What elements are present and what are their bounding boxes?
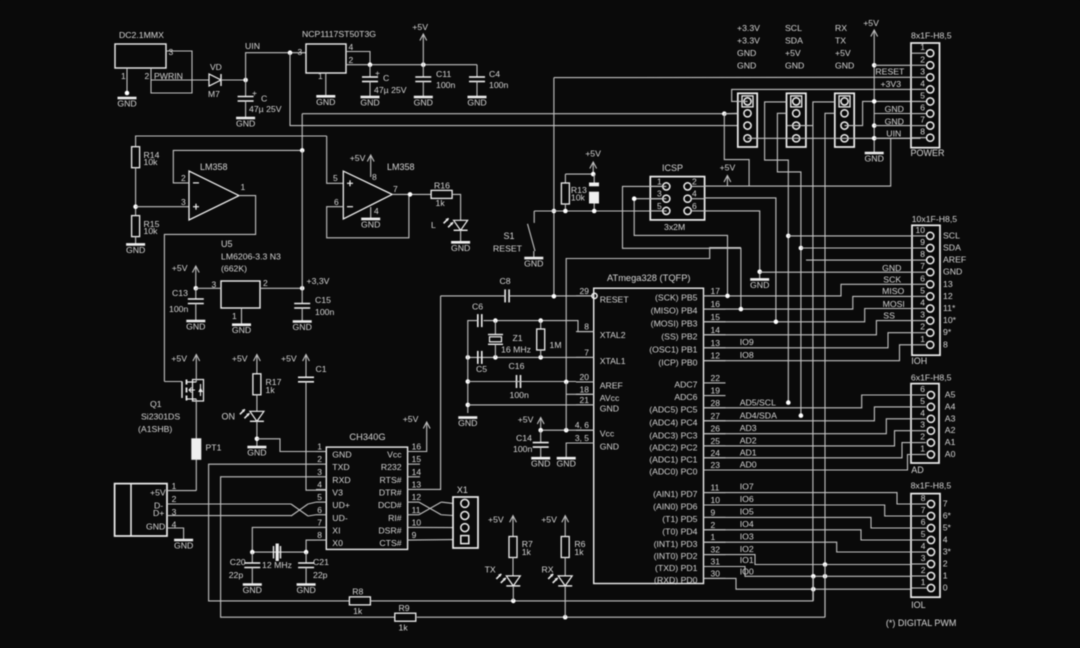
ground GND at input cap <box>236 118 255 129</box>
svg-text:XTAL1: XTAL1 <box>600 356 626 366</box>
capacitor C15 100n <box>294 304 310 309</box>
svg-text:GND: GND <box>943 267 962 277</box>
svg-text:1: 1 <box>232 311 237 321</box>
svg-text:4: 4 <box>349 42 354 52</box>
svg-text:XTAL2: XTAL2 <box>600 330 626 340</box>
svg-text:1: 1 <box>920 444 925 454</box>
wire R6 to RX LED <box>564 558 566 576</box>
wire USB pin4 GND <box>167 528 184 540</box>
svg-text:100n: 100n <box>436 80 455 90</box>
svg-text:7: 7 <box>393 184 398 194</box>
svg-text:DSR#: DSR# <box>378 525 401 535</box>
wire R17 to ON LED <box>256 395 258 412</box>
power +5V at op-amp2 pin8 <box>350 153 374 177</box>
svg-text:XI: XI <box>332 525 340 535</box>
wire rail to op-amp2 +input <box>327 136 344 183</box>
svg-text:Z1: Z1 <box>513 333 523 343</box>
svg-text:SDA: SDA <box>943 243 961 253</box>
junction pin8 <box>872 136 877 141</box>
svg-text:GND: GND <box>750 280 769 290</box>
IOL pin 7 (6*) <box>927 512 934 519</box>
resistor R14 10k <box>132 147 140 168</box>
header J1 4-pin <box>738 93 757 147</box>
svg-text:+5V: +5V <box>863 18 879 28</box>
svg-text:2: 2 <box>181 173 186 183</box>
svg-text:15: 15 <box>711 312 721 322</box>
ground GND at C11 <box>414 97 433 108</box>
svg-text:3: 3 <box>921 553 926 563</box>
junction reg out / C <box>368 62 373 67</box>
svg-text:4: 4 <box>920 298 925 308</box>
wire UIN rail B across top <box>290 53 738 126</box>
svg-text:L: L <box>431 220 436 230</box>
junction +5V arrow / C11 <box>421 62 426 67</box>
svg-text:LM358: LM358 <box>200 162 228 172</box>
svg-text:AVcc: AVcc <box>600 393 620 403</box>
header J1 4-pin pin 2 <box>744 110 751 117</box>
svg-text:11*: 11* <box>943 303 956 313</box>
junction ON LED ground node <box>255 437 260 442</box>
svg-text:SDA: SDA <box>785 36 803 46</box>
power +5V at R6 <box>541 515 568 537</box>
svg-text:+5V: +5V <box>720 163 736 173</box>
svg-text:21: 21 <box>580 395 590 405</box>
junction IO0 riser <box>811 587 816 592</box>
svg-text:2: 2 <box>943 559 948 569</box>
ground GND at C20 <box>243 585 262 596</box>
svg-text:SCL: SCL <box>785 23 802 33</box>
header J3 4-pin pin 1 <box>841 98 848 105</box>
X1 pin 1 <box>461 499 469 507</box>
svg-text:7: 7 <box>920 115 925 125</box>
svg-text:AD3: AD3 <box>740 423 757 433</box>
svg-text:100n: 100n <box>315 307 334 317</box>
svg-text:15: 15 <box>412 454 422 464</box>
wire X0 to crystal <box>306 540 316 552</box>
svg-text:5: 5 <box>921 529 926 539</box>
header J3 4-pin pin 4 <box>841 135 848 142</box>
wire ICSP pin4 MOSI route <box>705 198 776 321</box>
svg-text:10k: 10k <box>144 226 159 236</box>
svg-text:CH340G: CH340G <box>349 432 385 442</box>
junction UIN-rail <box>288 50 293 55</box>
svg-text:IO4: IO4 <box>740 519 754 529</box>
svg-text:1k: 1k <box>574 547 584 557</box>
svg-text:6*: 6* <box>943 511 952 521</box>
svg-text:IO0: IO0 <box>740 567 754 577</box>
svg-text:AREF: AREF <box>943 255 966 265</box>
wire diode to UIN node <box>221 79 246 81</box>
wire C8 left to DTR column <box>441 295 506 297</box>
svg-text:DC2.1MMX: DC2.1MMX <box>119 30 164 40</box>
svg-text:2: 2 <box>692 176 697 186</box>
POWER pin 8 <box>927 134 934 141</box>
svg-text:X0: X0 <box>332 538 343 548</box>
svg-text:13: 13 <box>711 338 721 348</box>
AD pin 5 (A4) <box>927 403 934 410</box>
crystal Q 12 MHz <box>274 544 281 562</box>
junction MOSI/ICSP <box>774 320 779 325</box>
AD pin 3 (A2) <box>927 427 934 434</box>
svg-text:(ADC1) PC1: (ADC1) PC1 <box>649 454 697 464</box>
svg-text:2: 2 <box>920 432 925 442</box>
IOL pin 2 (1) <box>927 572 934 579</box>
svg-text:IO2: IO2 <box>740 544 754 554</box>
wire POWER pin3 RESET <box>554 76 911 78</box>
svg-text:1: 1 <box>711 532 716 542</box>
svg-text:UIN: UIN <box>886 129 901 139</box>
junction gnd column pin21 row <box>466 403 471 408</box>
IOH pin 8 (AREF) <box>927 257 934 264</box>
svg-text:UIN: UIN <box>245 41 260 51</box>
svg-text:+5V: +5V <box>585 149 601 159</box>
junction MISO/ICSP <box>739 307 744 312</box>
svg-text:UD-: UD- <box>332 513 348 523</box>
svg-text:1k: 1k <box>353 606 363 616</box>
IOH pin 4 (11*) <box>927 305 934 312</box>
junction +5V/pin2 <box>872 63 877 68</box>
svg-text:1k: 1k <box>522 547 532 557</box>
junction U5 input / C13 <box>194 286 199 291</box>
AD pin 4 (A3) <box>927 415 934 422</box>
resistor R6 1k <box>561 537 569 558</box>
svg-text:AD: AD <box>911 465 924 475</box>
wire header3 pin2 TX drop <box>825 113 835 617</box>
svg-text:2: 2 <box>920 54 925 64</box>
svg-text:+5V: +5V <box>541 515 557 525</box>
IOH pin 6 (13) <box>927 281 934 288</box>
svg-text:11: 11 <box>711 483 720 493</box>
wire XTAL1 row <box>468 356 594 358</box>
svg-text:+5V: +5V <box>403 414 419 424</box>
junction 1M bottom <box>538 355 543 360</box>
wire ICSP pin1 MISO route <box>623 186 741 309</box>
svg-text:14: 14 <box>412 467 422 477</box>
svg-text:GND: GND <box>785 61 804 71</box>
wire RESET vertical net <box>553 78 555 297</box>
junction crystal left <box>250 550 255 555</box>
svg-text:2: 2 <box>317 454 322 464</box>
svg-text:GND: GND <box>360 98 379 108</box>
svg-text:Q1: Q1 <box>150 399 162 409</box>
POWER pin 7 <box>927 122 934 129</box>
svg-text:1: 1 <box>943 571 948 581</box>
svg-text:+5V: +5V <box>172 263 188 273</box>
wire CH340 Vcc to +5V <box>408 429 427 452</box>
svg-text:A0: A0 <box>945 449 956 459</box>
op-amp U1B LM358 <box>343 171 392 219</box>
power +5V at R17 <box>232 354 260 374</box>
svg-text:C15: C15 <box>315 295 331 305</box>
wire PT1 to USB +5V <box>195 459 197 490</box>
svg-text:(ADC5) PC5: (ADC5) PC5 <box>649 404 697 414</box>
svg-text:IO6: IO6 <box>740 494 754 504</box>
svg-text:IO5: IO5 <box>740 507 754 517</box>
POWER pin 5 <box>927 98 934 105</box>
svg-text:5: 5 <box>920 285 925 295</box>
svg-text:100n: 100n <box>510 390 529 400</box>
svg-text:7: 7 <box>584 347 589 357</box>
svg-text:12 MHz: 12 MHz <box>262 560 292 570</box>
wire op-amp2 output to R16 <box>392 193 431 195</box>
junction pin7 <box>872 123 877 128</box>
connector USB mini <box>115 484 167 536</box>
svg-text:C: C <box>261 94 267 104</box>
svg-text:19: 19 <box>711 386 721 396</box>
svg-text:22p: 22p <box>313 570 328 580</box>
svg-text:3: 3 <box>181 197 186 207</box>
svg-text:6: 6 <box>317 505 322 515</box>
junction IO2/RX riser <box>823 562 828 567</box>
IOL pin 8 (7) <box>927 500 934 507</box>
svg-text:1: 1 <box>921 577 926 587</box>
X1 pin 4 <box>461 536 469 544</box>
junction IO1/TX riser <box>811 574 816 579</box>
wire DCD#/RI# crossover to X1 <box>408 501 419 503</box>
junction R13 bottom <box>563 209 568 214</box>
power +5V at R13/diode <box>585 149 601 175</box>
power +5V at ICSP pin2 <box>720 163 736 187</box>
svg-text:DTR#: DTR# <box>379 487 402 497</box>
wire header3 pin3 +5V hook to POWER pin5 <box>845 101 921 125</box>
IOL pin 3 (2) <box>927 560 934 567</box>
svg-text:VD: VD <box>210 62 222 72</box>
junction SDA at IOH row <box>799 246 804 251</box>
resistor R15 10k <box>132 216 140 237</box>
AD pin 1 (A0) <box>927 451 934 458</box>
svg-text:GND: GND <box>467 98 486 108</box>
svg-text:GND: GND <box>186 322 205 332</box>
svg-text:27: 27 <box>711 411 721 421</box>
svg-text:(ADC2) PC2: (ADC2) PC2 <box>649 443 697 453</box>
svg-text:RESET: RESET <box>600 294 630 304</box>
header J2 4-pin pin 4 <box>793 135 800 142</box>
svg-text:GND: GND <box>524 259 543 269</box>
svg-text:(OSC1) PB1: (OSC1) PB1 <box>649 344 697 354</box>
svg-text:11: 11 <box>412 505 421 515</box>
svg-text:A2: A2 <box>945 425 956 435</box>
svg-text:UD+: UD+ <box>332 500 350 510</box>
svg-text:MOSI: MOSI <box>883 299 905 309</box>
svg-text:ON: ON <box>222 412 236 422</box>
op-amp U1A LM358 <box>189 171 239 220</box>
svg-text:1k: 1k <box>436 198 446 208</box>
junction feedback/3V3 column <box>300 148 305 153</box>
junction +5V/pin5 <box>872 99 877 104</box>
ground GND at ICSP <box>750 279 769 290</box>
junction SDA at AD4 row <box>799 413 804 418</box>
svg-text:PT1: PT1 <box>206 443 222 453</box>
svg-text:3: 3 <box>657 189 662 199</box>
svg-text:LM358: LM358 <box>387 162 415 172</box>
junction Vcc/+5V column <box>564 428 569 433</box>
wire Q1 drain to PT1 <box>195 399 197 439</box>
wire USB data crossover <box>291 504 308 516</box>
header J1 4-pin pin 1 <box>744 98 751 105</box>
svg-text:C20: C20 <box>230 557 246 567</box>
svg-text:GND: GND <box>236 119 255 129</box>
svg-text:+5V: +5V <box>281 354 297 364</box>
svg-text:GND: GND <box>885 104 904 114</box>
ground GND at C13 <box>186 321 205 332</box>
header J3 4-pin pin 2 <box>841 110 848 117</box>
svg-text:RESET: RESET <box>493 244 523 254</box>
svg-text:2: 2 <box>172 494 177 504</box>
wire R7 to TX LED <box>512 558 514 576</box>
IOH pin 3 (10*) <box>927 317 934 324</box>
capacitor C1 <box>298 377 314 382</box>
svg-text:0: 0 <box>943 583 948 593</box>
wire header3 pin4 tied on GND row <box>854 137 874 139</box>
resistor R16 1k <box>431 190 452 198</box>
svg-text:GND: GND <box>865 154 884 164</box>
junction R14/R15/op-amp <box>133 204 138 209</box>
resistor R13 10k <box>564 174 566 183</box>
wire AVcc feed <box>566 393 594 395</box>
svg-text:12: 12 <box>412 492 422 502</box>
svg-text:7: 7 <box>921 505 926 515</box>
svg-text:SCK: SCK <box>883 275 901 285</box>
svg-text:C4: C4 <box>489 69 500 79</box>
ground GND at U5 <box>232 325 251 336</box>
svg-text:4: 4 <box>374 206 379 216</box>
svg-text:POWER: POWER <box>911 148 946 158</box>
wire XI to crystal <box>252 527 316 552</box>
svg-text:Vcc: Vcc <box>600 429 615 439</box>
svg-text:GND: GND <box>117 99 136 109</box>
svg-text:(INT1) PD3: (INT1) PD3 <box>654 539 698 549</box>
svg-text:R232: R232 <box>381 462 402 472</box>
wire op-amp2 feedback loop <box>327 194 409 237</box>
junction SCL at AD5 row <box>786 400 791 405</box>
capacitor C 47u 25V (output) <box>369 65 371 77</box>
ATmega RESET bubble <box>592 293 597 298</box>
capacitor C11 100n <box>422 65 424 77</box>
svg-text:(ADC0) PC0: (ADC0) PC0 <box>649 467 697 477</box>
svg-text:(MOSI) PB3: (MOSI) PB3 <box>651 318 698 328</box>
svg-text:4: 4 <box>692 189 697 199</box>
power +5V at U5 input <box>172 263 199 288</box>
wire USB D+ to CH340 <box>167 515 291 517</box>
ground GND at output cap <box>360 97 379 108</box>
svg-text:SCL: SCL <box>943 230 960 240</box>
ground GND at ATmega 3,5 <box>557 458 576 469</box>
junction AREF <box>564 380 569 385</box>
wire USB pin1 +5V to PT1 <box>167 490 196 492</box>
wire header3 pin1 RX drop <box>813 102 835 601</box>
header J2 4-pin <box>787 93 806 147</box>
ground GND at C4 <box>467 97 486 108</box>
svg-text:16: 16 <box>711 299 721 309</box>
wire rail A drop at left <box>301 114 303 151</box>
wire header1 pin1 +3.3V to POWER pin4 <box>732 89 921 101</box>
svg-text:16 MHz: 16 MHz <box>501 345 531 355</box>
wire RX-LED row riser upper <box>824 565 826 618</box>
power +5V arrow at rail <box>412 22 428 65</box>
svg-text:1: 1 <box>657 176 662 186</box>
svg-text:IOL: IOL <box>911 600 926 610</box>
header J1 4-pin pin 3 <box>744 122 751 129</box>
svg-text:1k: 1k <box>266 385 276 395</box>
wire POWER pin8 UIN <box>874 137 911 139</box>
svg-text:RESET: RESET <box>875 67 905 77</box>
svg-text:3: 3 <box>920 66 925 76</box>
wire ICSP pin3 SCK route <box>634 199 727 296</box>
svg-text:A3: A3 <box>945 413 956 423</box>
wire crystal row <box>252 551 306 553</box>
IOL pin 6 (5*) <box>927 524 934 531</box>
svg-text:7: 7 <box>920 261 925 271</box>
svg-text:2: 2 <box>145 71 150 81</box>
svg-text:9: 9 <box>711 507 716 517</box>
svg-text:C1: C1 <box>316 364 327 374</box>
svg-text:MISO: MISO <box>882 286 904 296</box>
junction op-amp2 output <box>408 192 413 197</box>
svg-text:3*: 3* <box>943 547 952 557</box>
svg-text:GND: GND <box>885 117 904 127</box>
resistor 1M <box>540 321 542 329</box>
svg-text:5: 5 <box>333 173 338 183</box>
svg-text:(TXD) PD1: (TXD) PD1 <box>655 563 698 573</box>
svg-text:X1: X1 <box>457 485 468 495</box>
svg-text:C11: C11 <box>436 69 451 79</box>
svg-text:5: 5 <box>657 201 662 211</box>
wire PWRIN pin3 loop <box>151 51 192 93</box>
svg-text:+3V3: +3V3 <box>881 79 902 89</box>
svg-text:GND: GND <box>332 450 351 460</box>
svg-text:ATmega328 (TQFP): ATmega328 (TQFP) <box>607 273 691 283</box>
wire AREF row through C16 <box>468 381 566 383</box>
wire DTR# to C8 column <box>408 296 441 490</box>
IOH pin 10 (SCL) <box>927 232 934 239</box>
svg-text:IOH: IOH <box>911 356 927 366</box>
junction ICSP gnd / IOH gnd row <box>757 269 762 274</box>
header J2 4-pin pin 2 <box>793 110 800 117</box>
svg-text:GND: GND <box>174 541 193 551</box>
wire UIN node up and to regulator pin3 <box>246 53 306 80</box>
svg-text:28: 28 <box>711 398 721 408</box>
IOL pin 5 (4) <box>927 536 934 543</box>
wire header1 pin2 rail tap <box>724 112 738 114</box>
header J3 4-pin <box>835 93 854 147</box>
svg-text:+3,3V: +3,3V <box>307 276 330 286</box>
IOH pin 5 (12) <box>927 293 934 300</box>
svg-text:M7: M7 <box>208 89 220 99</box>
wire R14 top rail <box>136 136 327 147</box>
wire regulator pin4 jog to pin2 rail <box>346 52 370 65</box>
wire 3V3 column down to C15 <box>301 150 303 303</box>
svg-text:3: 3 <box>317 467 322 477</box>
wire IOH pin7 GND row <box>760 271 912 273</box>
svg-text:10x1F-H8,5: 10x1F-H8,5 <box>912 214 958 224</box>
wire ICSP pin2 +5V to UIN riser <box>705 138 891 186</box>
IOH pin 1 (8) <box>927 341 934 348</box>
svg-text:(AIN0) PD6: (AIN0) PD6 <box>653 502 698 512</box>
junction +3.3V node <box>300 286 305 291</box>
ground GND at regulator <box>316 96 335 107</box>
svg-text:+5V: +5V <box>488 515 504 525</box>
svg-text:10k: 10k <box>144 157 159 167</box>
svg-text:IO3: IO3 <box>740 532 754 542</box>
svg-text:7: 7 <box>317 517 322 527</box>
wire IOH pin10 SCL row <box>788 235 912 237</box>
svg-text:AD4/SDA: AD4/SDA <box>740 410 777 420</box>
POWER pin 4 <box>927 86 934 93</box>
svg-text:+5V: +5V <box>232 354 248 364</box>
svg-text:GND: GND <box>414 98 433 108</box>
svg-text:5: 5 <box>317 492 322 502</box>
svg-text:8: 8 <box>921 493 926 503</box>
